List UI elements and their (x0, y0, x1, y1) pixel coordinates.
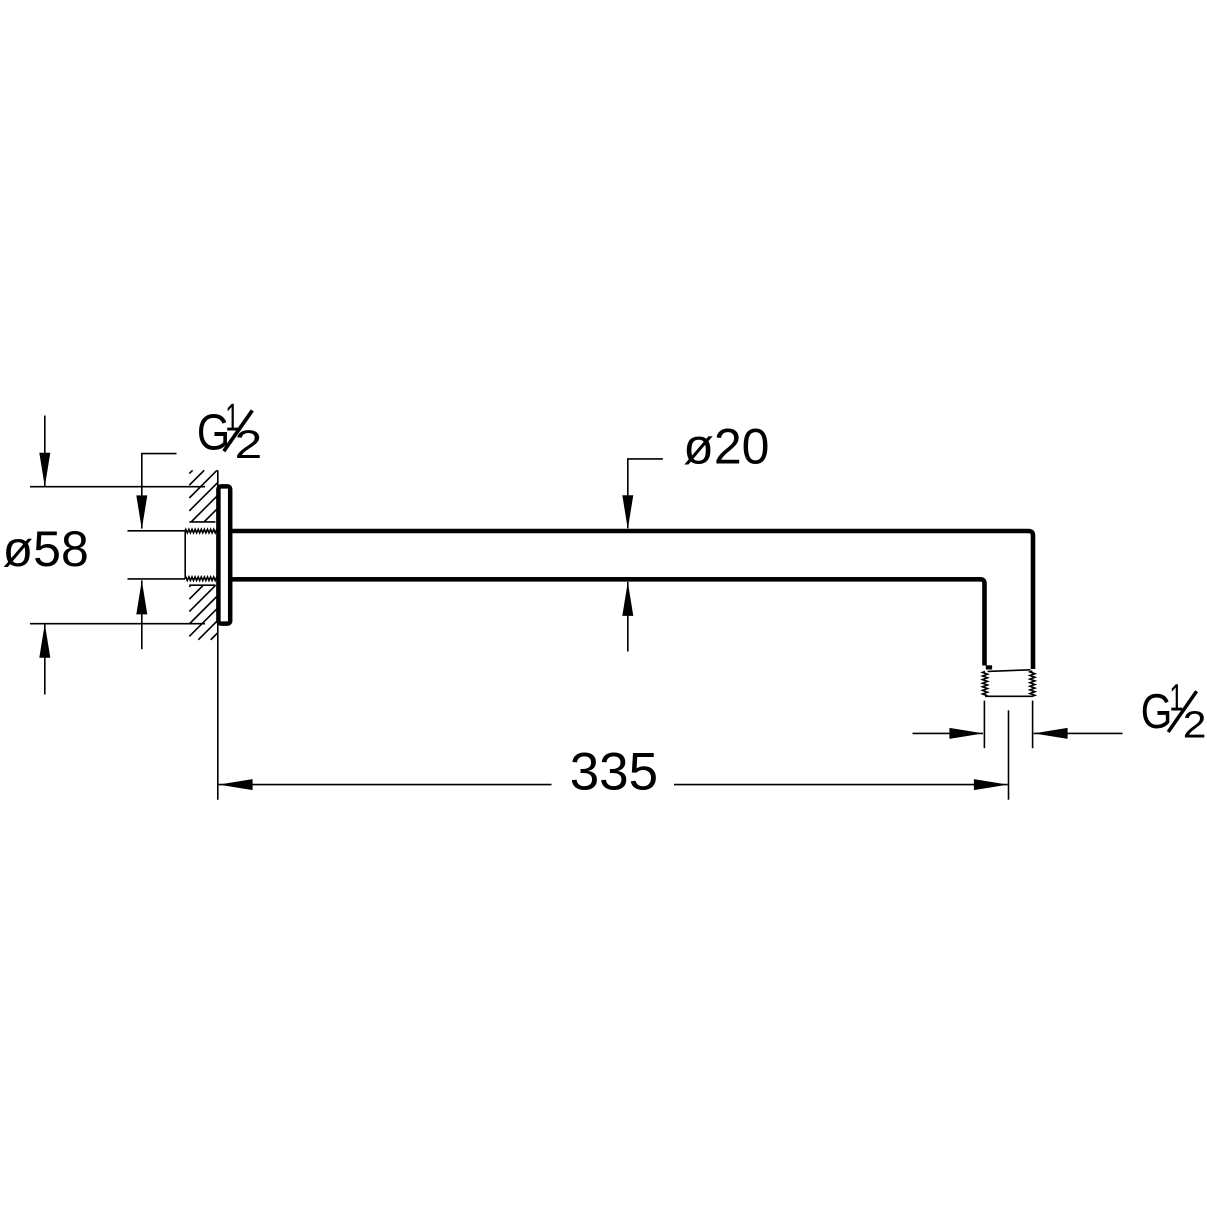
dim ø58 top arrow (44, 416, 46, 487)
wall hatching (189, 470, 218, 640)
dim ø58 bottom extension line (30, 623, 205, 625)
wall face line / extension line of 335 (217, 470, 219, 800)
svg-text:ø20: ø20 (683, 419, 769, 475)
outlet right extension line (1032, 701, 1034, 749)
svg-text:2: 2 (1183, 704, 1207, 746)
step at start of outlet thread (986, 665, 992, 669)
leader G1/2 left (142, 454, 177, 529)
svg-text:ø58: ø58 (3, 521, 89, 577)
dim 335 left arrow (219, 779, 253, 790)
dim 335 right arrow (974, 779, 1008, 790)
outlet thread crest right (1030, 671, 1035, 696)
svg-text:335: 335 (570, 743, 658, 802)
threaded nipple left edge (184, 531, 186, 579)
leader ø20 (628, 459, 663, 528)
arrow up to thread bottom (G1/2 left) (141, 580, 143, 649)
nipple thread crest bottom (128, 578, 186, 580)
outlet left extension line (983, 701, 985, 749)
label G1/2 left (197, 397, 262, 468)
wall hole boundary bottom (189, 584, 215, 586)
outlet thread crest left (983, 672, 988, 697)
dim ø58 top extension line (30, 486, 205, 488)
dim ø58 bottom arrow (44, 624, 46, 694)
label G1/2 right (1141, 677, 1207, 746)
outlet thread chamfer line (988, 670, 1031, 672)
nipple thread crest top (extension + zigzag) (128, 530, 186, 532)
outlet thread dim left arrow (913, 732, 984, 734)
wall hole boundary top (189, 521, 215, 523)
svg-text:2: 2 (235, 423, 263, 467)
dim 335 line left part (219, 784, 552, 786)
outlet thread end line (985, 695, 1032, 697)
arrow up to arm bottom (ø20) (627, 582, 629, 652)
outlet centerline (1008, 710, 1010, 799)
wall flange (218, 486, 230, 623)
shower arm top outline (231, 531, 1034, 669)
outlet thread dim right arrow (1034, 732, 1123, 734)
shower arm bottom outline (231, 579, 985, 665)
dim 335 line right part (674, 784, 1008, 786)
